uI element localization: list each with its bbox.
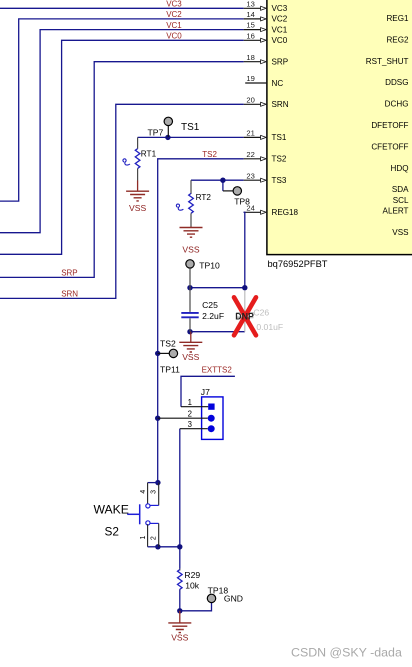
pin 19 NC [245, 74, 283, 88]
svg-text:0.01uF: 0.01uF [256, 322, 283, 332]
capacitor C26 (DNP, greyed) [236, 290, 283, 332]
svg-text:CSDN @SKY -dada: CSDN @SKY -dada [291, 645, 402, 659]
svg-text:2: 2 [188, 409, 192, 418]
svg-text:TP7: TP7 [148, 128, 164, 138]
svg-text:19: 19 [246, 74, 254, 83]
junction REG18 corner [242, 285, 247, 290]
svg-text:RT1: RT1 [141, 149, 157, 158]
pin 18 SRP [244, 53, 289, 67]
actuator [139, 504, 141, 524]
svg-text:1: 1 [140, 536, 147, 540]
svg-text:TP11: TP11 [160, 365, 180, 375]
wire C25 bottom to C26 [190, 331, 245, 333]
resistor RT2 (thermistor) [176, 180, 211, 226]
svg-text:DFETOFF: DFETOFF [371, 121, 408, 130]
wire REG18 [190, 212, 245, 287]
svg-text:VSS: VSS [171, 632, 188, 642]
svg-text:SDA: SDA [392, 185, 409, 194]
wire VC1 [0, 30, 244, 233]
ground VSS (R29) [168, 611, 191, 643]
svg-text:C26: C26 [253, 308, 269, 318]
SECTION: WIRES [0, 8, 248, 613]
svg-text:VSS: VSS [182, 244, 199, 254]
svg-text:J7: J7 [201, 387, 210, 397]
svg-text:NC: NC [272, 79, 284, 88]
svg-text:TP10: TP10 [199, 261, 220, 271]
svg-text:bq76952PFBT: bq76952PFBT [268, 259, 328, 269]
DNP X mark [234, 297, 256, 335]
svg-text:C25: C25 [202, 300, 218, 310]
pin 14 VC2 [244, 10, 288, 24]
svg-text:23: 23 [246, 171, 254, 180]
svg-text:VC0: VC0 [166, 32, 182, 41]
wire SRP [0, 62, 244, 278]
svg-text:SRP: SRP [272, 58, 289, 67]
svg-text:VC1: VC1 [166, 21, 182, 30]
ground VSS (C25) [179, 332, 202, 362]
pin 23 TS3 [244, 171, 287, 185]
pin 2 [158, 417, 208, 419]
wire TS3 [191, 179, 244, 181]
svg-text:EXTTS2: EXTTS2 [202, 365, 233, 374]
svg-text:18: 18 [246, 53, 254, 62]
svg-text:VC3: VC3 [166, 0, 182, 9]
connector J7 [158, 387, 223, 440]
svg-text:DDSG: DDSG [385, 78, 408, 87]
svg-text:TS1: TS1 [272, 133, 287, 142]
junction S2 pin3 [155, 480, 160, 485]
switch S2 WAKE [94, 483, 159, 547]
wire S2 to R29 node [179, 547, 181, 569]
wire S2 bottom link [158, 546, 180, 548]
wire TS2 [158, 159, 244, 483]
svg-text:SRN: SRN [61, 290, 78, 299]
svg-text:VC2: VC2 [166, 10, 182, 19]
top contact body pins 4/3 [148, 482, 159, 484]
pin 24 REG18 [244, 203, 299, 217]
svg-text:RST_SHUT: RST_SHUT [366, 57, 409, 66]
pin 13 VC3 [244, 0, 288, 13]
svg-text:SRP: SRP [61, 269, 77, 278]
svg-text:VC3: VC3 [272, 4, 288, 13]
ground VSS (RT1) [126, 181, 149, 213]
svg-text:VSS: VSS [182, 352, 199, 362]
svg-text:14: 14 [246, 10, 254, 19]
svg-text:1: 1 [188, 398, 192, 407]
pin 3 [180, 428, 208, 430]
svg-text:DCHG: DCHG [385, 100, 409, 109]
test point TP11 [158, 339, 180, 375]
test point TP18 [207, 585, 243, 603]
resistor R29 10k [178, 569, 201, 591]
svg-text:22: 22 [246, 150, 254, 159]
svg-text:CFETOFF: CFETOFF [371, 142, 408, 151]
svg-text:10k: 10k [185, 580, 200, 590]
svg-text:20: 20 [246, 95, 254, 104]
svg-text:TS1: TS1 [181, 122, 200, 133]
SECTION: IC [244, 0, 412, 269]
test point TP10 [186, 260, 220, 288]
svg-text:VSS: VSS [392, 228, 409, 237]
resistor RT1 (thermistor) [123, 137, 157, 180]
thermistor mark [123, 159, 130, 165]
svg-text:TS3: TS3 [272, 176, 287, 185]
ground VSS (RT2) [180, 227, 203, 255]
SECTION: NET LABELS [61, 0, 232, 374]
op-amp U1 bq76952PFBT body [267, 0, 412, 255]
svg-text:3: 3 [188, 420, 192, 429]
wire SRN [0, 104, 244, 298]
pin 21 TS1 [244, 129, 287, 143]
svg-text:3: 3 [150, 490, 157, 494]
svg-text:2.2uF: 2.2uF [202, 311, 224, 321]
svg-text:TP8: TP8 [234, 197, 250, 207]
wire VC0 [0, 40, 244, 254]
svg-text:VC1: VC1 [272, 25, 288, 34]
svg-text:S2: S2 [105, 524, 119, 538]
svg-text:TS2: TS2 [272, 155, 287, 164]
svg-text:SCL: SCL [393, 196, 409, 205]
test point TP8 [223, 187, 250, 207]
svg-text:TS2: TS2 [202, 150, 217, 159]
svg-text:21: 21 [246, 129, 254, 138]
pin 20 SRN [244, 95, 289, 109]
junction J7 pin2 [155, 416, 160, 421]
wire J7 pin3 drop [179, 429, 181, 547]
test point TP7 [148, 117, 200, 137]
svg-text:REG2: REG2 [386, 35, 409, 44]
pin 22 TS2 [244, 150, 287, 164]
junction TP7/TS1 [165, 135, 170, 140]
junction S2 pin2 [155, 544, 160, 549]
svg-text:DNP: DNP [235, 311, 254, 321]
svg-text:RT2: RT2 [196, 193, 212, 202]
svg-text:2: 2 [150, 536, 157, 540]
svg-text:VC2: VC2 [272, 15, 288, 24]
junction R29 bottom node [177, 608, 182, 613]
svg-text:TS2: TS2 [160, 339, 176, 349]
svg-text:ALERT: ALERT [383, 207, 409, 216]
svg-text:16: 16 [246, 31, 254, 40]
svg-text:4: 4 [140, 490, 147, 494]
svg-text:WAKE: WAKE [94, 502, 129, 516]
wire VC3 [0, 7, 244, 9]
wire TP8 drop [222, 180, 224, 191]
svg-text:SRN: SRN [272, 100, 289, 109]
junction R29 top node [177, 544, 182, 549]
wire TS1 [138, 136, 244, 138]
svg-text:GND: GND [224, 594, 243, 604]
svg-text:VSS: VSS [129, 203, 146, 213]
pin 16 VC0 [244, 31, 288, 45]
svg-text:REG1: REG1 [386, 14, 409, 23]
svg-text:13: 13 [246, 0, 254, 8]
wire R29 to ground node [179, 589, 181, 611]
SECTION: COMPONENTS [94, 117, 284, 642]
bottom contact body pins 1/2 [146, 521, 150, 525]
svg-text:R29: R29 [184, 570, 200, 580]
wire EXTTS2 [181, 376, 235, 406]
capacitor C25 [181, 288, 224, 332]
thermistor mark [176, 204, 183, 210]
svg-text:REG18: REG18 [272, 208, 299, 217]
svg-text:VC0: VC0 [272, 36, 288, 45]
junction C25 bottom [187, 329, 192, 334]
wire VC2 [0, 19, 244, 201]
svg-text:15: 15 [246, 21, 254, 30]
pin 15 VC1 [244, 21, 288, 35]
SECTION: WATERMARK [291, 645, 402, 659]
svg-text:HDQ: HDQ [391, 164, 409, 173]
junction TP10/C25 [187, 285, 192, 290]
wire TP18 branch [180, 603, 212, 611]
junction TP8/TS3 [220, 178, 225, 183]
junction TP11/TS2 [155, 351, 160, 356]
pin 1 [181, 406, 208, 408]
